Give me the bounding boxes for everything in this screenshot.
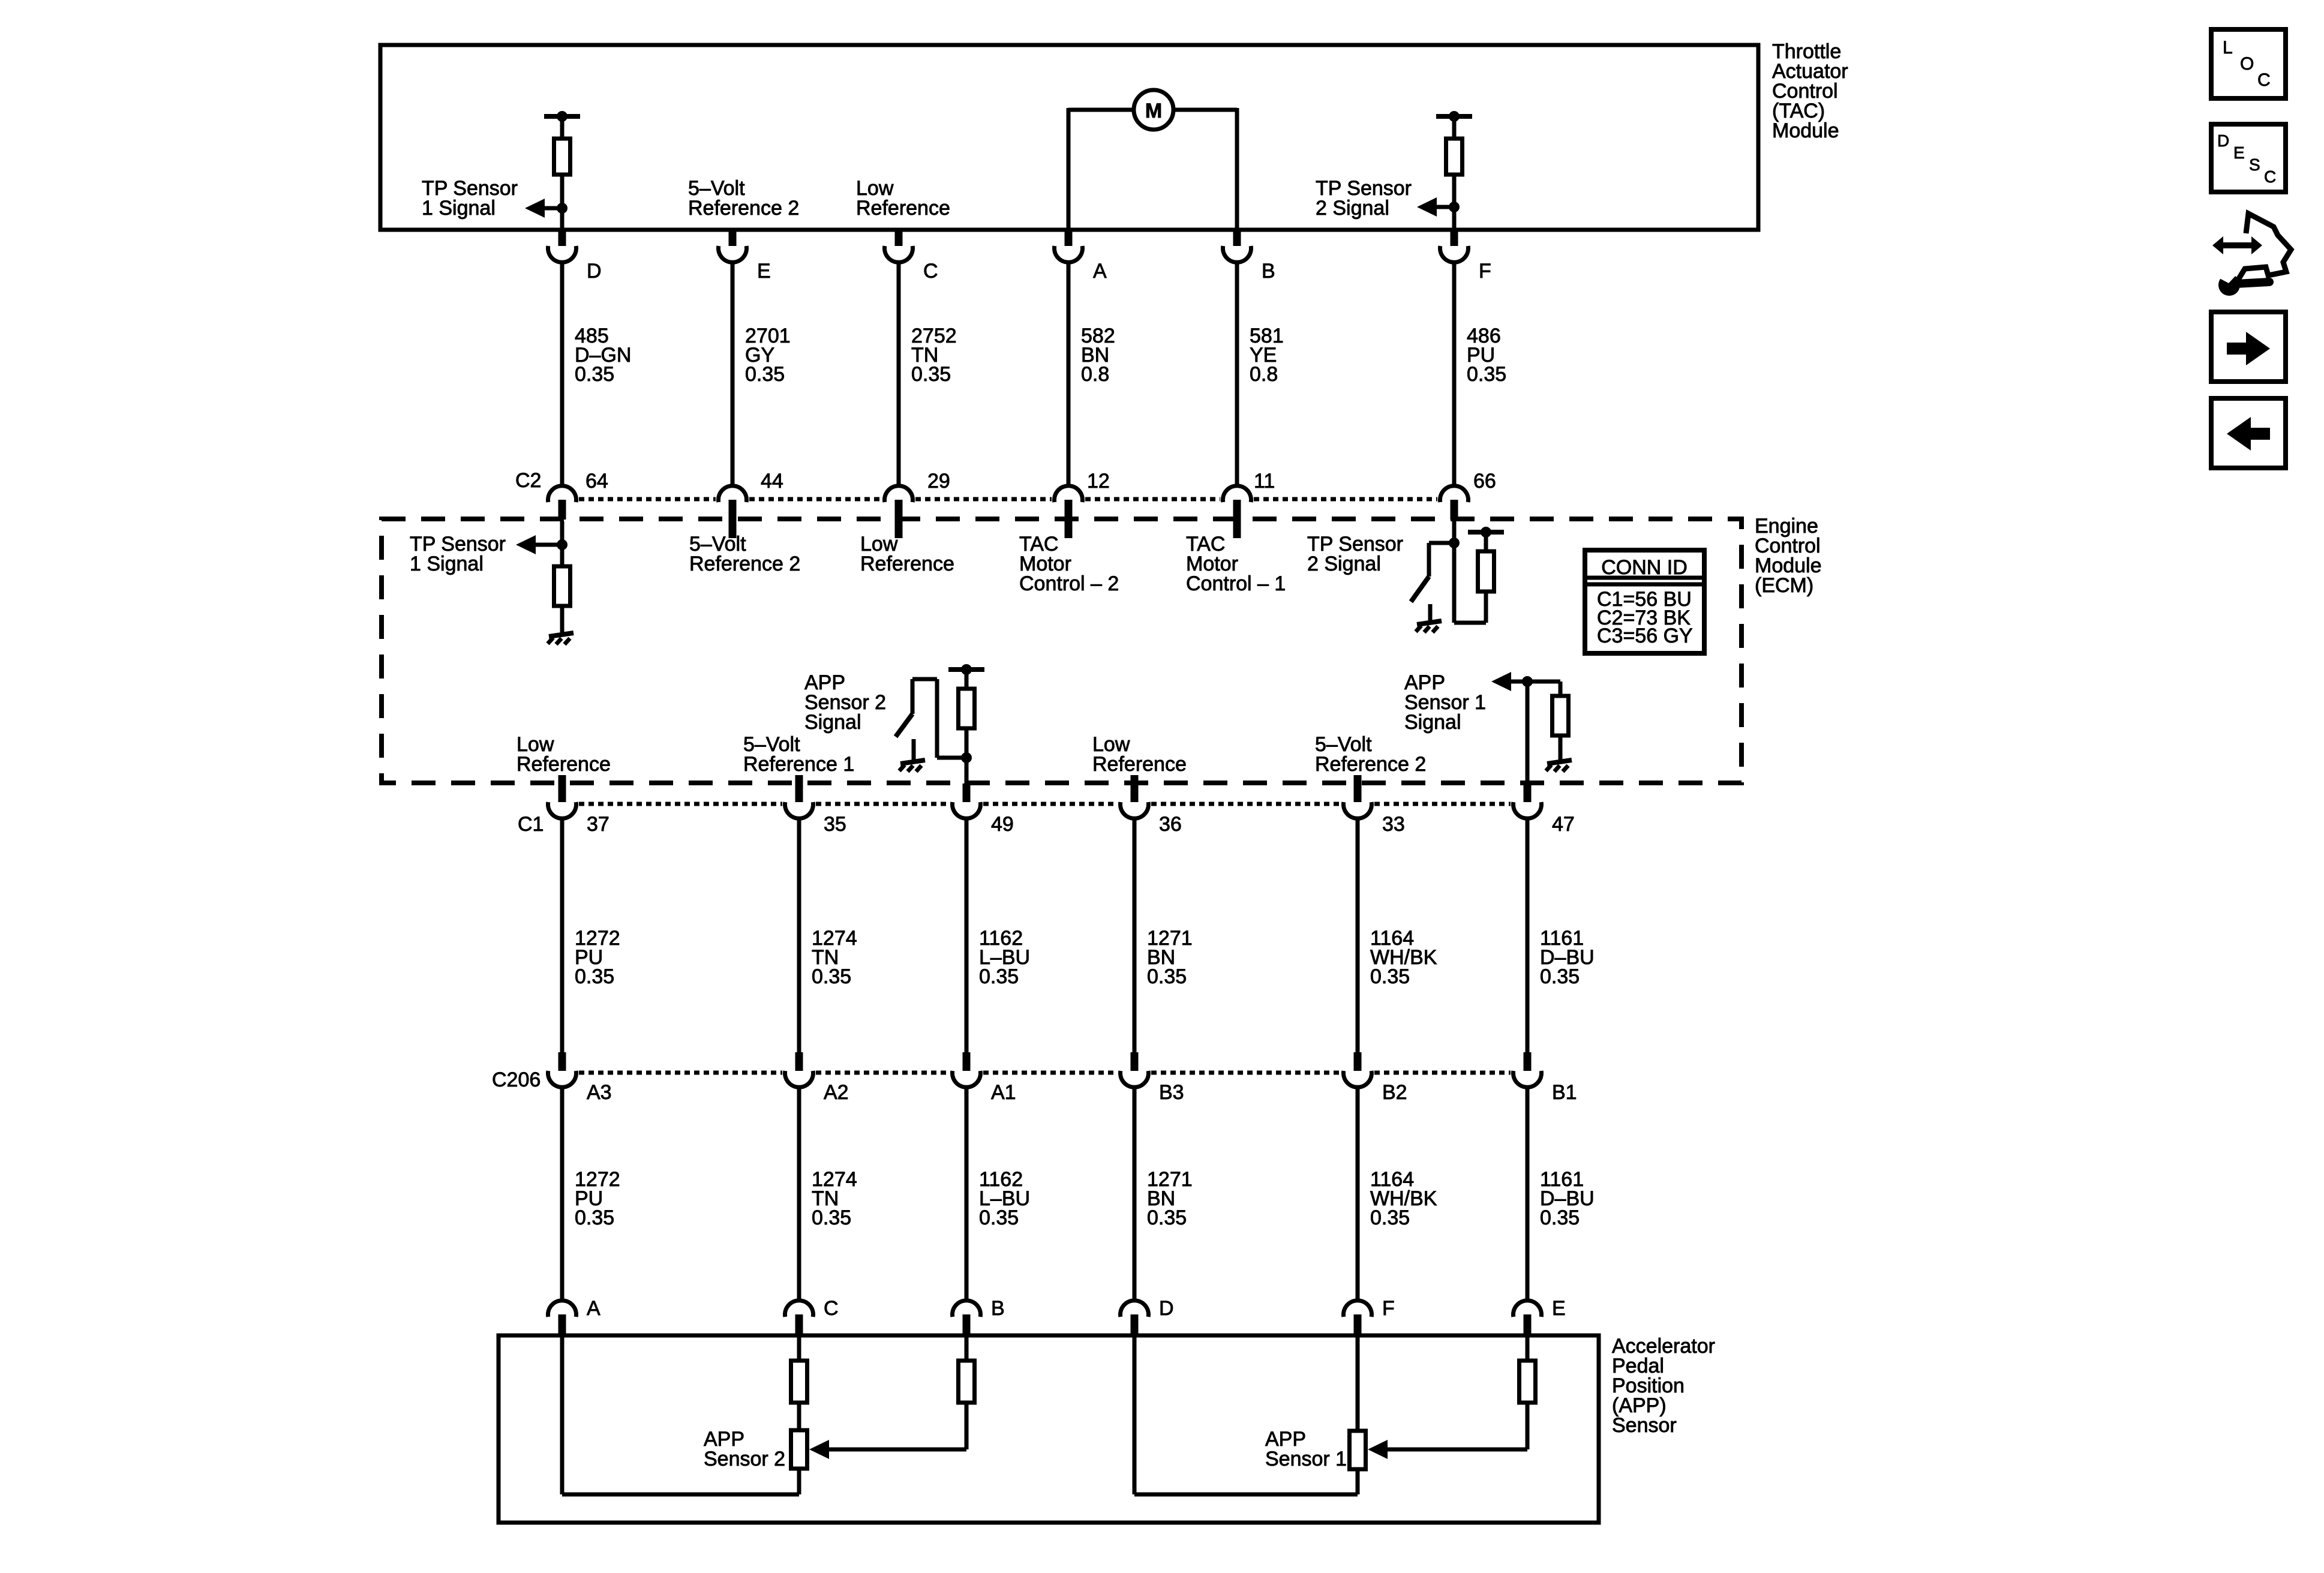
svg-text:Signal: Signal <box>804 711 861 734</box>
svg-text:B: B <box>991 1297 1005 1320</box>
svg-text:B2: B2 <box>1382 1081 1407 1104</box>
svg-text:66: 66 <box>1473 470 1496 493</box>
svg-text:47: 47 <box>1552 813 1575 836</box>
svg-text:Reference 2: Reference 2 <box>1315 753 1426 776</box>
svg-text:35: 35 <box>824 813 846 836</box>
svg-text:C1: C1 <box>518 813 544 836</box>
svg-text:0.35: 0.35 <box>979 1206 1019 1229</box>
svg-text:L: L <box>2223 38 2233 58</box>
svg-text:Reference: Reference <box>856 197 950 220</box>
svg-text:0.35: 0.35 <box>575 363 614 386</box>
svg-text:S: S <box>2249 155 2260 174</box>
svg-text:B: B <box>1262 260 1275 283</box>
svg-text:F: F <box>1382 1297 1395 1320</box>
svg-text:Control – 1: Control – 1 <box>1186 572 1286 595</box>
svg-text:C: C <box>2257 70 2271 90</box>
svg-text:O: O <box>2240 54 2254 74</box>
svg-text:0.8: 0.8 <box>1250 363 1278 386</box>
svg-text:E: E <box>2233 143 2245 162</box>
svg-text:F: F <box>1479 260 1491 283</box>
svg-text:M: M <box>1145 100 1162 122</box>
svg-text:0.35: 0.35 <box>1147 965 1187 988</box>
svg-text:0.35: 0.35 <box>1467 363 1506 386</box>
svg-text:CONN ID: CONN ID <box>1601 556 1688 579</box>
svg-text:Reference: Reference <box>517 753 611 776</box>
svg-text:Sensor: Sensor <box>1612 1414 1677 1437</box>
svg-text:0.35: 0.35 <box>575 965 614 988</box>
svg-text:0.8: 0.8 <box>1081 363 1109 386</box>
svg-text:33: 33 <box>1382 813 1405 836</box>
svg-text:Reference: Reference <box>860 553 954 575</box>
svg-text:C3=56 GY: C3=56 GY <box>1597 625 1693 647</box>
svg-text:44: 44 <box>761 470 783 493</box>
svg-text:0.35: 0.35 <box>1147 1206 1187 1229</box>
svg-text:0.35: 0.35 <box>1370 965 1410 988</box>
svg-text:D: D <box>587 260 602 283</box>
svg-text:C: C <box>923 260 938 283</box>
svg-text:36: 36 <box>1159 813 1182 836</box>
svg-text:1 Signal: 1 Signal <box>422 197 496 220</box>
svg-text:E: E <box>757 260 771 283</box>
svg-text:0.35: 0.35 <box>812 965 851 988</box>
svg-text:A3: A3 <box>587 1081 612 1104</box>
svg-text:0.35: 0.35 <box>745 363 785 386</box>
svg-text:0.35: 0.35 <box>979 965 1019 988</box>
svg-text:Control – 2: Control – 2 <box>1019 572 1119 595</box>
svg-text:A: A <box>587 1297 600 1320</box>
svg-text:C: C <box>2264 167 2276 186</box>
svg-text:D: D <box>1159 1297 1174 1320</box>
svg-text:C2: C2 <box>515 469 541 492</box>
svg-text:0.35: 0.35 <box>1370 1206 1410 1229</box>
svg-text:B1: B1 <box>1552 1081 1577 1104</box>
svg-text:37: 37 <box>587 813 609 836</box>
svg-text:Reference 2: Reference 2 <box>688 197 799 220</box>
svg-text:2 Signal: 2 Signal <box>1307 553 1381 575</box>
svg-text:C206: C206 <box>492 1068 541 1091</box>
svg-text:Reference 2: Reference 2 <box>689 553 800 575</box>
svg-text:49: 49 <box>991 813 1014 836</box>
svg-text:D: D <box>2217 131 2229 150</box>
svg-text:Signal: Signal <box>1404 711 1461 734</box>
svg-text:Sensor 2: Sensor 2 <box>704 1448 785 1470</box>
svg-text:12: 12 <box>1087 470 1110 493</box>
svg-text:11: 11 <box>1254 470 1275 493</box>
svg-text:2 Signal: 2 Signal <box>1316 197 1389 220</box>
svg-text:0.35: 0.35 <box>575 1206 614 1229</box>
svg-text:(ECM): (ECM) <box>1755 574 1813 597</box>
svg-text:Module: Module <box>1772 119 1839 142</box>
svg-text:A2: A2 <box>824 1081 849 1104</box>
svg-text:E: E <box>1552 1297 1566 1320</box>
svg-text:Sensor 1: Sensor 1 <box>1265 1448 1347 1470</box>
svg-text:Reference 1: Reference 1 <box>743 753 854 776</box>
svg-text:0.35: 0.35 <box>812 1206 851 1229</box>
svg-text:A1: A1 <box>991 1081 1016 1104</box>
svg-text:1 Signal: 1 Signal <box>410 553 484 575</box>
svg-text:29: 29 <box>927 470 950 493</box>
svg-text:64: 64 <box>585 470 608 493</box>
svg-text:0.35: 0.35 <box>1540 1206 1580 1229</box>
svg-text:0.35: 0.35 <box>911 363 951 386</box>
svg-text:B3: B3 <box>1159 1081 1184 1104</box>
svg-text:A: A <box>1093 260 1107 283</box>
svg-text:C: C <box>824 1297 839 1320</box>
svg-text:0.35: 0.35 <box>1540 965 1580 988</box>
svg-text:Reference: Reference <box>1092 753 1187 776</box>
